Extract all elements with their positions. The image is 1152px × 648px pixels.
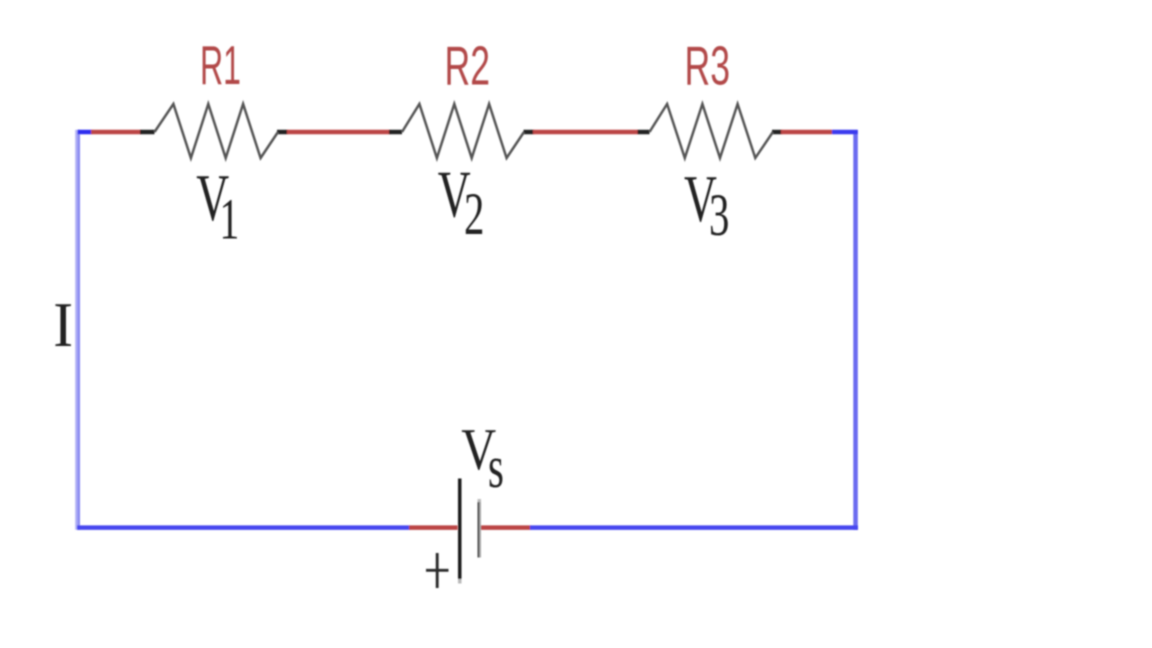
svg-text:1: 1: [220, 187, 240, 251]
svg-text:R2: R2: [445, 35, 491, 97]
svg-text:s: s: [488, 434, 504, 501]
svg-text:R3: R3: [685, 35, 731, 97]
svg-text:R1: R1: [200, 34, 241, 96]
svg-text:3: 3: [709, 182, 729, 249]
svg-text:I: I: [53, 290, 73, 360]
svg-text:2: 2: [464, 181, 484, 248]
